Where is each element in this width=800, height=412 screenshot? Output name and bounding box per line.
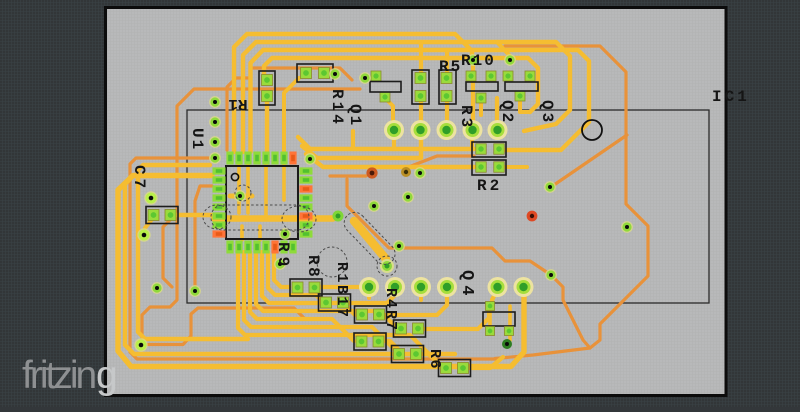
svg-text:R14: R14 (328, 89, 346, 127)
svg-text:R6: R6 (426, 349, 443, 370)
svg-text:IC1: IC1 (712, 88, 750, 106)
svg-text:R2: R2 (477, 177, 502, 195)
svg-text:R10: R10 (461, 52, 496, 70)
svg-text:Q1: Q1 (346, 104, 364, 127)
svg-text:Q2: Q2 (498, 100, 516, 125)
svg-text:R1B17: R1B17 (333, 262, 350, 320)
svg-text:Q3: Q3 (538, 100, 556, 125)
svg-text:R3: R3 (457, 105, 475, 130)
svg-text:Q4: Q4 (457, 270, 476, 300)
svg-text:g: g (96, 354, 116, 397)
svg-text:R8: R8 (304, 255, 322, 279)
svg-text:fritzin: fritzin (22, 354, 95, 397)
svg-text:U1: U1 (188, 128, 206, 151)
svg-text:R5: R5 (439, 58, 462, 76)
svg-text:R4R7: R4R7 (382, 288, 399, 332)
svg-text:R9: R9 (274, 242, 292, 271)
svg-text:R1: R1 (228, 95, 247, 113)
svg-text:C7: C7 (130, 165, 148, 192)
